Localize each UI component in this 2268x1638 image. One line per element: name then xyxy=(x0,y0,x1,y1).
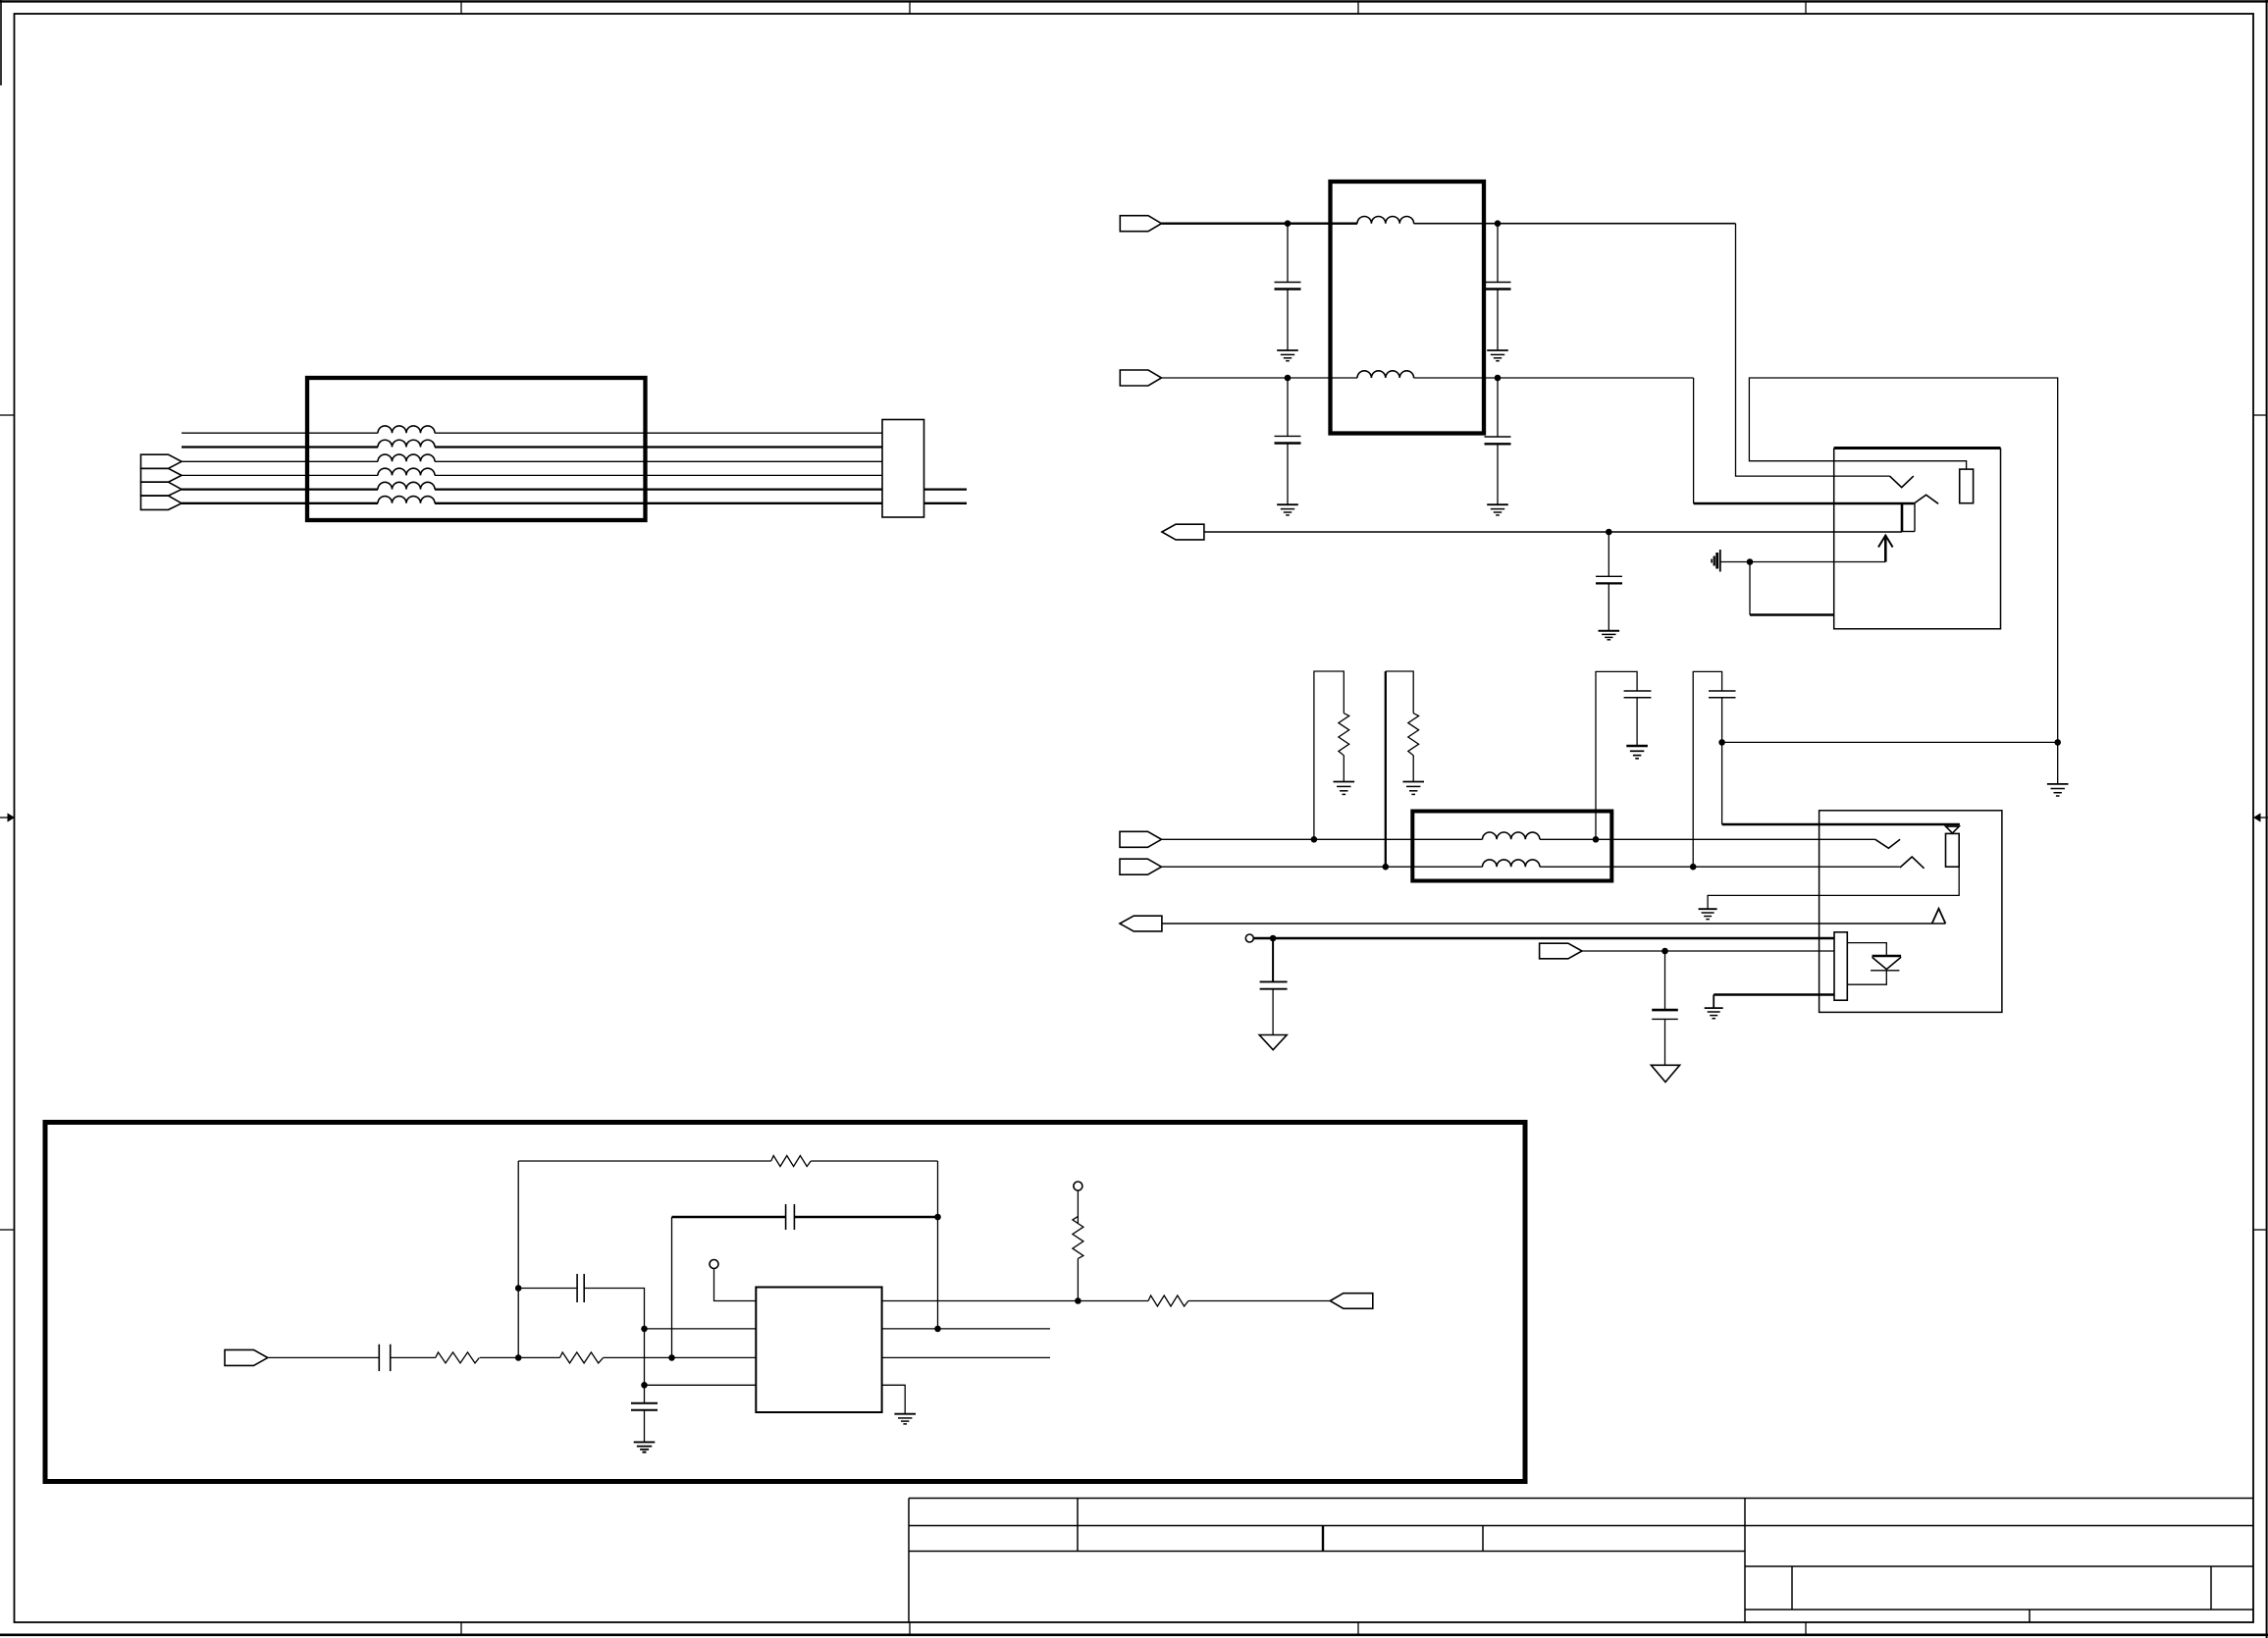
plug sleeve bottom xyxy=(1902,531,1915,533)
wire W2 right xyxy=(435,446,882,448)
main block frame xyxy=(45,1123,1525,1482)
LED loop top xyxy=(1847,943,1886,956)
inductor L1b xyxy=(378,440,435,447)
resistor R1 zigzag xyxy=(1339,713,1349,756)
plug arrow shaft xyxy=(1884,537,1887,562)
title row3 xyxy=(909,1551,1745,1553)
filter block L1 xyxy=(307,378,646,520)
switch contact caret1 xyxy=(1914,495,1938,503)
ground C4 xyxy=(1487,504,1508,515)
capacitor C7 hairpin xyxy=(1693,671,1721,867)
ground C13 xyxy=(634,1442,656,1452)
centre arrow right edge xyxy=(2253,813,2268,821)
title left edge xyxy=(908,1499,910,1623)
zone tick bottom 1 xyxy=(460,1622,462,1635)
ground shield xyxy=(1705,1008,1723,1019)
ground R2 xyxy=(1402,782,1424,795)
resistor R3 xyxy=(436,1352,480,1363)
pin circle U1 xyxy=(710,1260,718,1269)
wire J1 out 2 xyxy=(924,502,968,504)
net flag B2 xyxy=(1120,370,1161,386)
inductor L1d xyxy=(378,468,435,475)
inductor L1f xyxy=(378,497,435,503)
ground R1 xyxy=(1334,782,1355,795)
title row r2 xyxy=(1745,1609,2253,1611)
inductor L2a xyxy=(1357,216,1414,223)
pin circle E xyxy=(1245,934,1253,942)
wire J1 out 1 xyxy=(924,488,968,490)
zone tick bottom 3 xyxy=(1357,1622,1359,1635)
wire out b xyxy=(1188,1300,1330,1302)
capacitor C7 lead xyxy=(1721,698,1723,743)
ground C1 xyxy=(1277,350,1298,361)
wire ring bold J3 xyxy=(1273,937,1834,940)
node dot C8 xyxy=(1270,935,1277,942)
resistor R7 out xyxy=(1148,1295,1188,1306)
wire out pin2 xyxy=(882,1328,1050,1330)
feedback top wire right xyxy=(811,1160,937,1162)
wire sleeve net xyxy=(1204,531,1902,533)
inductor L1e xyxy=(378,482,435,489)
zone tick top 2 xyxy=(909,1,911,14)
node dot C6 xyxy=(1593,836,1600,843)
jack J2 box xyxy=(1834,449,2001,629)
title v2 xyxy=(1322,1526,1324,1552)
capacitor C7 plates xyxy=(1709,690,1736,692)
capacitor C6 lead xyxy=(1636,698,1638,746)
title v1 xyxy=(1077,1499,1079,1552)
node dot N2-C2 xyxy=(1285,375,1292,382)
resistor R4 xyxy=(560,1352,604,1363)
title main divider xyxy=(1744,1499,1746,1623)
zone tick top 3 xyxy=(1357,1,1359,14)
wire N2 a xyxy=(1162,377,1358,379)
ground triangle C9 xyxy=(1651,1065,1679,1082)
node dot B xyxy=(668,1354,675,1361)
wire M4 a xyxy=(1162,866,1483,868)
capacitor C6 hairpin xyxy=(1596,671,1637,839)
ground tip net xyxy=(2047,742,2069,796)
wire W1 left xyxy=(182,432,378,434)
zone tick right 2 xyxy=(2253,1229,2267,1231)
connector J1 xyxy=(882,420,924,518)
wire N1 b xyxy=(1414,223,1736,225)
ground C5 xyxy=(1599,631,1620,640)
pin circle R6 xyxy=(1074,1182,1082,1190)
capacitor C2 xyxy=(1275,378,1301,504)
inductor L2b xyxy=(1357,371,1414,378)
wire W2 left xyxy=(182,446,378,448)
zone tick bottom 2 xyxy=(909,1622,911,1635)
wire W4 left xyxy=(182,474,378,476)
node dot fb2 xyxy=(934,1214,941,1221)
zone tick left 1 xyxy=(0,414,15,416)
capacitor C11 series xyxy=(785,1204,787,1230)
choke block L2 xyxy=(1331,182,1485,434)
wire G a xyxy=(268,1356,380,1358)
wire chassis to plug xyxy=(1721,561,1886,563)
resistor R2 hairpin xyxy=(1385,671,1387,867)
wire W5 right xyxy=(435,488,882,490)
resistor R2 lead xyxy=(1412,756,1414,782)
capacitor C13 xyxy=(631,1385,658,1442)
resistor R1 hairpin xyxy=(1314,671,1344,839)
node dot chassis xyxy=(1747,558,1754,565)
op-amp U1 xyxy=(756,1288,881,1413)
capacitor C3 xyxy=(1485,224,1511,350)
frame outer left edge remnant xyxy=(0,0,2,85)
ground return wire xyxy=(1749,562,1751,615)
resistor R6 pull xyxy=(1073,1190,1083,1301)
wire W5 left xyxy=(182,488,378,490)
wire sleeve drop xyxy=(1721,742,1723,824)
choke block L3 xyxy=(1412,812,1611,881)
node dot N2-C4 xyxy=(1495,375,1502,382)
inv input wire xyxy=(518,1288,577,1290)
wire W3 left xyxy=(182,460,378,462)
feedback riser left xyxy=(517,1161,519,1357)
wire M3 b xyxy=(1540,838,1875,840)
wire G c xyxy=(480,1356,560,1358)
cap feedback riser xyxy=(671,1217,673,1357)
resistor R2 top xyxy=(1386,671,1413,713)
tip contact rect J3 xyxy=(1946,833,1960,867)
net flag D2 xyxy=(1120,859,1162,874)
ground U1 xyxy=(894,1414,916,1424)
contact delta xyxy=(1932,909,1946,924)
chassis ground symbol xyxy=(1712,550,1720,572)
wire circle stub xyxy=(1253,937,1273,940)
wire shield drop xyxy=(1713,995,1714,1009)
output flag H (left) xyxy=(1330,1294,1373,1309)
net flag F xyxy=(1540,943,1582,959)
title top xyxy=(909,1498,2253,1500)
net flag A4 xyxy=(141,496,183,509)
wire M4 b xyxy=(1540,866,1900,868)
capacitor C1 xyxy=(1275,224,1301,350)
title v5 xyxy=(2210,1566,2212,1610)
wire N2 b xyxy=(1414,377,1694,379)
resistor R1 lead xyxy=(1343,756,1345,782)
wire sleeve bold xyxy=(1722,823,1960,826)
node dot C7 xyxy=(1690,864,1697,871)
net flag A3 xyxy=(141,482,183,496)
output flag E (left) xyxy=(1120,916,1162,931)
node dot pull xyxy=(1075,1297,1081,1304)
node dot N1-C1 xyxy=(1285,220,1292,227)
ground tip J3 xyxy=(1699,909,1717,919)
title v3 xyxy=(1482,1526,1484,1552)
zone tick top 1 xyxy=(460,1,462,14)
wire gnd pin xyxy=(882,1385,906,1413)
plug sleeve bar right xyxy=(1914,503,1916,532)
node dot pin4 xyxy=(641,1382,648,1389)
resistor R5 feedback xyxy=(771,1156,811,1167)
LED loop bottom xyxy=(1847,971,1886,984)
wire W4 right xyxy=(435,474,882,476)
wire out pin1 xyxy=(882,1300,1149,1302)
wire N1 a xyxy=(1162,223,1358,225)
LED D1 cathode xyxy=(1871,970,1899,972)
node dot sleeve-C5 xyxy=(1606,529,1612,536)
wire N2 drop xyxy=(1693,378,1695,503)
cap feedback wire left xyxy=(672,1216,786,1218)
wire mic net xyxy=(1582,950,1834,952)
inductor L3a xyxy=(1483,832,1540,839)
zone tick left 2 xyxy=(0,1229,15,1231)
plug rect J3 xyxy=(1834,932,1847,1000)
cap feedback wire right xyxy=(794,1216,937,1218)
wire N1 drop xyxy=(1736,224,1890,476)
plug sleeve bar left xyxy=(1901,503,1904,532)
frame outer bottom edge xyxy=(0,1634,2268,1637)
title v6 xyxy=(2029,1610,2031,1622)
ground C3 xyxy=(1487,350,1508,361)
wire M3 a xyxy=(1162,838,1483,840)
LED D1 triangle xyxy=(1872,957,1902,969)
title v4 xyxy=(1791,1566,1793,1610)
wire tip net across xyxy=(1722,741,2058,743)
tip ground route xyxy=(1708,867,1959,909)
capacitor C8 xyxy=(1260,938,1288,1035)
title row2 xyxy=(909,1525,2253,1527)
inv input wire b xyxy=(584,1289,644,1386)
resistor R2 zigzag xyxy=(1408,713,1419,756)
wire W6 right xyxy=(435,502,882,504)
capacitor C6 plates xyxy=(1624,690,1652,692)
wire shield bold J3 xyxy=(1714,993,1834,996)
capacitor C9 xyxy=(1652,951,1678,1065)
net flag G xyxy=(225,1349,268,1365)
inductor L1c xyxy=(378,454,435,461)
jack J3 box xyxy=(1820,811,2002,1013)
node dot out xyxy=(934,1326,941,1333)
feedback top wire left xyxy=(518,1160,771,1162)
wire W6 left xyxy=(182,502,378,504)
frame outer right edge xyxy=(2266,0,2268,1638)
jack J2 box top xyxy=(1834,447,2001,449)
wire ring feed bold xyxy=(1694,502,1915,505)
wire pin2 xyxy=(645,1328,757,1330)
node dot fb1 xyxy=(515,1285,522,1292)
zone tick right 1 xyxy=(2253,414,2267,416)
switch contact V1 xyxy=(1890,476,1914,488)
title row r1 xyxy=(1745,1565,2253,1567)
capacitor C4 xyxy=(1485,378,1511,504)
frame outer top edge xyxy=(0,0,2268,2)
wire circle pin xyxy=(714,1269,757,1301)
node dot C9 xyxy=(1661,948,1668,955)
net flag D1 xyxy=(1120,831,1162,847)
capacitor C10 series xyxy=(378,1345,380,1371)
node dot N1-C3 xyxy=(1495,220,1502,227)
node dot pin2 xyxy=(641,1326,648,1333)
zone tick top 4 xyxy=(1805,1,1807,14)
wire detect net xyxy=(1162,923,1946,925)
ground return bold xyxy=(1750,613,1834,616)
capacitor C5 xyxy=(1596,532,1622,631)
plug arrow head xyxy=(1878,536,1893,548)
wire pin4 xyxy=(645,1384,757,1386)
wire out pin3 xyxy=(882,1356,1050,1358)
inductor L1a xyxy=(378,426,435,433)
tip wire route xyxy=(1749,378,2057,742)
contact nabla xyxy=(1946,826,1960,833)
wire G b xyxy=(391,1356,436,1358)
node dot tip junction xyxy=(2054,739,2061,746)
tip contact rect xyxy=(1960,469,1974,503)
centre arrow left edge xyxy=(0,813,15,821)
switch contact caret2 xyxy=(1900,857,1925,869)
inductor L3b xyxy=(1483,860,1540,867)
node dot R1 xyxy=(1311,836,1318,843)
switch contact V2 xyxy=(1875,839,1900,848)
node dot C7 bottom xyxy=(1718,739,1725,746)
net flag A1 xyxy=(141,454,183,468)
wire G d xyxy=(604,1356,757,1358)
node dot R2 xyxy=(1383,864,1390,871)
net flag B1 xyxy=(1120,216,1161,232)
wire W1 right xyxy=(435,432,882,434)
ground C2 xyxy=(1277,504,1298,515)
capacitor C12 series xyxy=(576,1274,578,1302)
output flag C (left) xyxy=(1162,524,1204,540)
zone tick bottom 4 xyxy=(1805,1622,1807,1635)
ground triangle C8 xyxy=(1259,1035,1287,1050)
net flag A2 xyxy=(141,468,183,482)
feedback right riser xyxy=(937,1161,939,1329)
LED D1 anode bar xyxy=(1872,955,1902,958)
ground C6 xyxy=(1626,746,1648,759)
node dot A xyxy=(515,1354,522,1361)
wire W3 right xyxy=(435,460,882,462)
